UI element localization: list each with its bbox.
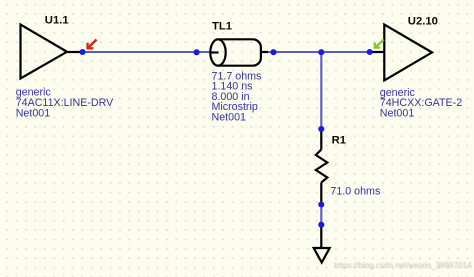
svg-text:71.0 ohms: 71.0 ohms: [330, 186, 380, 198]
svg-text:U1.1: U1.1: [45, 14, 69, 26]
svg-text:Net001: Net001: [212, 111, 247, 123]
svg-text:R1: R1: [332, 135, 346, 147]
svg-text:U2.10: U2.10: [408, 15, 438, 27]
svg-text:TL1: TL1: [212, 21, 232, 33]
svg-text:Net001: Net001: [16, 107, 51, 119]
svg-text:Net001: Net001: [380, 107, 415, 119]
